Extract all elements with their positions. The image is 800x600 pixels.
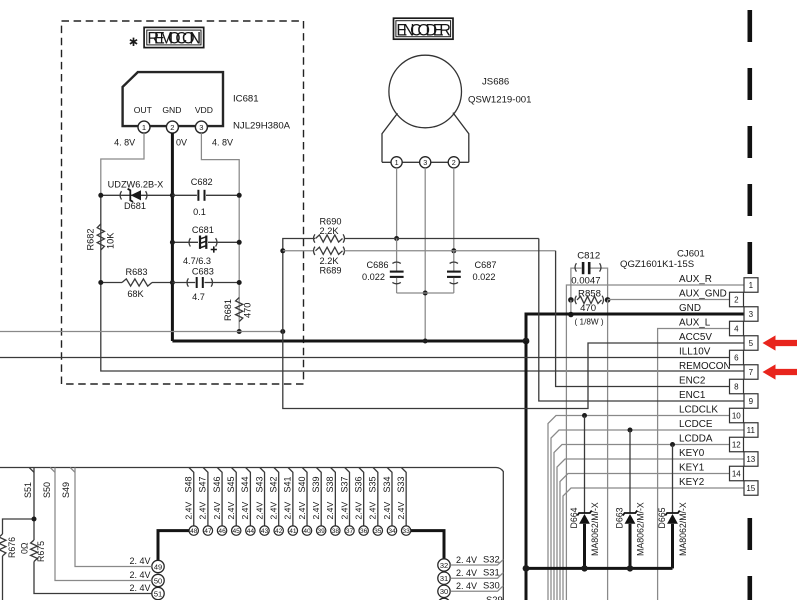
svg-text:ENC2: ENC2 [679, 376, 705, 387]
key pin 43 stub [260, 468, 265, 527]
label 2.4V pin 49 [129, 556, 150, 566]
svg-text:2.4V: 2.4V [339, 502, 349, 520]
svg-text:2.4V: 2.4V [396, 502, 406, 520]
svg-text:LCDCE: LCDCE [679, 419, 713, 430]
wire D663 up [629, 430, 631, 513]
svg-text:40: 40 [303, 528, 311, 535]
asterisk mark [130, 38, 137, 46]
encoder pin 1 [391, 157, 402, 168]
label 0.022 C686 [362, 272, 385, 282]
svg-text:4. 8V: 4. 8V [114, 138, 135, 148]
svg-text:ILL10V: ILL10V [679, 347, 711, 358]
wire S50 chamfer [50, 468, 55, 473]
label S47 [198, 476, 208, 492]
svg-text:REMOCON: REMOCON [147, 29, 200, 47]
label 2.4V pin 50 [129, 570, 150, 580]
svg-text:470: 470 [243, 303, 253, 318]
wire S30 [450, 586, 503, 592]
label 470 R858 [580, 303, 596, 314]
wire R683 row [101, 282, 173, 284]
key pin 46 stub [217, 468, 222, 527]
label 0ohm [20, 542, 30, 554]
svg-text:36: 36 [360, 528, 368, 535]
svg-text:1: 1 [749, 281, 754, 290]
junction D663 tap [628, 428, 633, 433]
label R858 [578, 288, 601, 299]
encoder pin 3 [420, 157, 431, 168]
label 2.4V pin 30 [456, 581, 477, 591]
label 4.7/6.3 [183, 256, 211, 266]
junction C681 right [237, 240, 242, 245]
label ENC1 [679, 390, 706, 401]
CJ601 pin 7 box [744, 365, 758, 380]
svg-text:D663: D663 [615, 507, 625, 528]
label AUX_GND [679, 289, 727, 300]
svg-text:S44: S44 [240, 476, 250, 492]
svg-text:49: 49 [154, 562, 162, 571]
key pin 50 circle [152, 574, 164, 586]
svg-text:R681: R681 [223, 299, 233, 321]
svg-text:GND: GND [679, 303, 701, 314]
capacitor C681 electrolytic [189, 236, 217, 253]
svg-text:41: 41 [289, 528, 297, 535]
label 0.0047 [571, 276, 600, 287]
svg-text:R682: R682 [86, 229, 96, 251]
wire D665 down [671, 524, 674, 569]
resistor R681 [236, 298, 243, 322]
svg-text:45: 45 [233, 528, 241, 535]
wire S49 chamfer [70, 468, 75, 473]
svg-text:2.4V: 2.4V [354, 502, 364, 520]
svg-text:QGZ1601K1-15S: QGZ1601K1-15S [620, 259, 694, 270]
label C681 [192, 225, 214, 235]
svg-text:68K: 68K [127, 289, 144, 299]
wire R676 link [3, 519, 35, 534]
junction C681 gnd rail [170, 240, 175, 245]
junction D664 tap [582, 413, 587, 418]
label LCDCE [679, 419, 713, 430]
svg-text:2.4V: 2.4V [254, 502, 264, 520]
svg-text:ENCODER: ENCODER [396, 22, 450, 40]
label S35 [368, 476, 378, 492]
wire D664 up [584, 416, 586, 514]
key pin 37 circle [345, 526, 354, 535]
svg-text:R683: R683 [126, 267, 148, 277]
junction R858 left [568, 297, 574, 303]
CJ601 pin 14 box [730, 466, 744, 481]
svg-text:C812: C812 [577, 250, 600, 261]
label 2.4V pin 38 [325, 502, 335, 520]
label LCDDA [679, 434, 713, 445]
CJ601 pin 6 box [730, 350, 744, 365]
rotary encoder JS686 knob [389, 55, 462, 128]
IC681 pin 1 [138, 121, 150, 133]
key pin 47 circle [203, 526, 212, 535]
svg-text:35: 35 [374, 528, 382, 535]
wire IC681 pin1 to left rail [101, 133, 144, 195]
wire C682 row [172, 194, 239, 196]
svg-text:S33: S33 [396, 476, 406, 492]
key pin 35 circle [373, 526, 382, 535]
label 68K [127, 289, 144, 299]
svg-text:S51: S51 [23, 482, 33, 498]
label C682 [191, 177, 213, 187]
label AUX_R [679, 274, 712, 285]
label S34 [382, 476, 392, 492]
svg-text:MA8062/M/-X: MA8062/M/-X [636, 502, 646, 556]
wire GND to pin3 [526, 314, 744, 341]
svg-text:S42: S42 [269, 476, 279, 492]
key pin 49 circle [152, 560, 164, 572]
svg-text:REMOCON: REMOCON [679, 361, 731, 372]
wire R858 to gnd [570, 300, 572, 315]
wire diode common [526, 567, 673, 570]
key pin 36 circle [359, 526, 368, 535]
wire S51 [34, 468, 152, 594]
svg-text:( 1/8W ): ( 1/8W ) [575, 317, 604, 326]
label 2.4V pin 31 [456, 568, 477, 578]
svg-text:R858: R858 [578, 288, 601, 299]
svg-text:47: 47 [204, 528, 212, 535]
label S32 [483, 553, 500, 564]
junction C682 right [237, 193, 242, 198]
label NJL29H380A [233, 121, 291, 132]
svg-text:C683: C683 [192, 266, 214, 276]
label S44 [240, 476, 250, 492]
key pin 33 circle [401, 526, 410, 535]
junction enc3 caps [423, 291, 428, 296]
wire S49 [75, 468, 152, 567]
wire key bus line [0, 468, 503, 600]
svg-text:4: 4 [734, 325, 739, 334]
wire cap bottoms link [397, 292, 454, 294]
svg-text:R676: R676 [7, 537, 17, 558]
diode D664 [577, 511, 591, 524]
svg-text:C687: C687 [475, 260, 497, 270]
label KEY1 [679, 463, 705, 474]
wire acc5v rail up [283, 239, 315, 332]
label 2.4V pin 32 [456, 555, 477, 565]
capacitor C682 [198, 190, 204, 201]
svg-text:D681: D681 [124, 201, 146, 211]
label 2.4V pin 35 [368, 502, 378, 520]
key pin 46 circle [217, 526, 226, 535]
junction D681 gnd rail [170, 193, 175, 198]
junction node left [280, 329, 285, 334]
svg-text:33: 33 [402, 528, 410, 535]
encoder body [382, 113, 469, 163]
label 4.8V pin1 [114, 138, 135, 148]
wire ENC2 [556, 251, 730, 387]
svg-text:C686: C686 [367, 260, 389, 270]
zener diode D681 [120, 189, 147, 202]
capacitor C686 [390, 239, 404, 294]
wire AUX_R [566, 285, 744, 600]
svg-text:2. 4V: 2. 4V [129, 583, 150, 593]
key pin 35 stub [373, 468, 378, 527]
label 2.2K R690 [320, 226, 340, 236]
label C683 [192, 266, 214, 276]
svg-text:50: 50 [154, 576, 162, 585]
wire pins 33-32 link [411, 531, 444, 559]
junction R681 bottom [237, 329, 242, 334]
wire LCDDA [554, 445, 730, 600]
label LCDCLK [679, 405, 718, 416]
page boundary dashed line [747, 10, 752, 600]
label ENC2 [679, 376, 705, 387]
junction C683 right [237, 280, 242, 285]
wire ENC1 [539, 239, 744, 402]
svg-text:48: 48 [190, 528, 198, 535]
label 0V pin2 [176, 138, 187, 148]
key pin 37 stub [345, 468, 350, 527]
svg-text:14: 14 [732, 470, 741, 479]
wire right rail [238, 195, 240, 331]
key pin 40 circle [302, 526, 311, 535]
svg-text:VDD: VDD [195, 105, 213, 115]
junction D664 common [581, 565, 587, 571]
junction D681 left [98, 193, 103, 198]
svg-text:KEY2: KEY2 [679, 477, 704, 488]
svg-text:C682: C682 [191, 177, 213, 187]
ENCODER title box [394, 18, 454, 39]
svg-text:2.4V: 2.4V [198, 502, 208, 520]
label S30 [483, 580, 500, 591]
key pin 29 circle partial [438, 594, 503, 600]
svg-text:LCDDA: LCDDA [679, 434, 713, 445]
wire R689 to enc2 [345, 250, 556, 252]
svg-text:2.4V: 2.4V [382, 502, 392, 520]
svg-text:30: 30 [440, 587, 448, 596]
resistor R858 [575, 296, 604, 304]
wire encoder pin1 drop [396, 168, 398, 239]
svg-text:S40: S40 [297, 476, 307, 492]
svg-text:31: 31 [440, 574, 448, 583]
svg-text:S43: S43 [254, 476, 264, 492]
wire C812 stubs [571, 268, 608, 300]
svg-text:51: 51 [154, 589, 162, 598]
label 470 [243, 303, 253, 318]
label AUX_L [679, 318, 711, 329]
label 10K [106, 232, 116, 249]
label QSW1219-001 [468, 95, 531, 106]
svg-text:2.4V: 2.4V [269, 502, 279, 520]
CJ601 pin 1 box [744, 278, 758, 293]
wire C683 row [172, 282, 239, 284]
resistor R676 [0, 534, 6, 556]
IC681 pin 3 [195, 121, 207, 133]
key pin 48 stub [189, 468, 194, 527]
label 4.8V pin3 [212, 138, 233, 148]
label S45 [226, 476, 236, 492]
wire left rail (node A) [100, 195, 102, 282]
svg-text:2.2K: 2.2K [320, 256, 340, 266]
diode D663 [623, 511, 637, 524]
key pin 40 stub [302, 468, 307, 527]
REMOCON shield dashed box [62, 21, 304, 384]
CJ601 pin 15 box [744, 481, 758, 496]
label KEY0 [679, 448, 705, 459]
wire pins 48-49 link [158, 531, 189, 561]
svg-text:D664: D664 [569, 507, 579, 528]
label R675 [36, 541, 46, 562]
label 2.4V pin 40 [297, 502, 307, 520]
wire ILL10V [0, 357, 730, 359]
svg-text:IC681: IC681 [233, 94, 259, 105]
svg-text:S46: S46 [212, 476, 222, 492]
wire LCDCE [551, 430, 744, 600]
svg-text:13: 13 [746, 455, 755, 464]
label R682 [86, 229, 96, 251]
wire GND down [525, 341, 528, 600]
junction enc1 node [394, 236, 399, 241]
CJ601 pin 4 box [730, 321, 744, 336]
svg-text:S35: S35 [368, 476, 378, 492]
label 2.4V pin 45 [226, 502, 236, 520]
label S40 [297, 476, 307, 492]
wire D665 up [672, 445, 674, 514]
wire D681 row [101, 194, 173, 196]
CJ601 pin 13 box [744, 452, 758, 467]
wire D664 down [583, 524, 586, 569]
label JS686 [482, 77, 509, 88]
label C687 [475, 260, 497, 270]
svg-text:S30: S30 [483, 580, 500, 591]
wire AUX_GND [608, 300, 730, 600]
label R681 [223, 299, 233, 321]
CJ601 pin 5 box [744, 336, 758, 351]
svg-text:8: 8 [734, 383, 739, 392]
label IC681 [233, 94, 259, 105]
label R683 [126, 267, 148, 277]
svg-text:S38: S38 [325, 476, 335, 492]
svg-text:0V: 0V [176, 138, 187, 148]
label D665 [657, 507, 667, 528]
red arrow pin 7 [763, 364, 798, 379]
CJ601 pin 8 box [730, 379, 744, 394]
svg-text:R690: R690 [320, 216, 342, 226]
key pin 43 circle [260, 526, 269, 535]
wire encoder pin2 drop [453, 168, 455, 251]
label KEY2 [679, 477, 704, 488]
svg-text:S49: S49 [61, 482, 71, 498]
svg-text:S50: S50 [42, 482, 52, 498]
svg-text:42: 42 [275, 528, 283, 535]
junction R858 right [605, 297, 611, 303]
label REMOCON [679, 361, 731, 372]
svg-text:KEY1: KEY1 [679, 463, 705, 474]
svg-text:2.4V: 2.4V [240, 502, 250, 520]
label D681 [124, 201, 146, 211]
CJ601 pin 11 box [744, 423, 758, 438]
op-amp IC681 body [123, 72, 223, 126]
svg-text:2.4V: 2.4V [311, 502, 321, 520]
svg-text:C681: C681 [192, 225, 214, 235]
label 2.4V pin 39 [311, 502, 321, 520]
svg-text:38: 38 [332, 528, 340, 535]
label S36 [354, 476, 364, 492]
junction acc rail r689 [280, 248, 285, 253]
CJ601 pin 2 box [730, 292, 744, 307]
wire IC681 pin3 to right rail [201, 133, 239, 195]
wire S32 [450, 559, 503, 565]
wire GND rail (IC681 pin2) [171, 133, 174, 341]
wire ACC5V [283, 332, 744, 409]
label 2.2K R689 [320, 256, 340, 266]
label D663 [615, 507, 625, 528]
svg-text:9: 9 [749, 397, 754, 406]
svg-text:S48: S48 [184, 476, 194, 492]
key pin 32 circle [438, 559, 450, 571]
capacitor C687 [447, 251, 461, 293]
wire S51 chamfer [29, 468, 34, 473]
label S51 [23, 482, 33, 498]
key pin 45 circle [232, 526, 241, 535]
label 1/8W [575, 317, 604, 326]
svg-text:0.022: 0.022 [362, 272, 385, 282]
svg-text:LCDCLK: LCDCLK [679, 405, 718, 416]
label 2.4V pin 43 [254, 502, 264, 520]
label 2.4V pin 47 [198, 502, 208, 520]
wire R676 down [2, 556, 4, 600]
svg-text:S45: S45 [226, 476, 236, 492]
label 2.4V pin 33 [396, 502, 406, 520]
resistor R690 [314, 234, 345, 242]
svg-text:32: 32 [440, 561, 448, 570]
key pin 45 stub [231, 468, 236, 527]
key pin 44 circle [246, 526, 255, 535]
key pin 33 stub [401, 468, 406, 527]
resistor R675 [31, 540, 38, 562]
key pin 42 stub [274, 468, 279, 527]
svg-text:MA8062/M/-X: MA8062/M/-X [590, 502, 600, 556]
svg-text:1: 1 [142, 123, 146, 132]
key pin 47 stub [203, 468, 208, 527]
svg-text:S31: S31 [483, 567, 500, 578]
svg-text:2. 4V: 2. 4V [129, 556, 150, 566]
wire remocon node to left edge [0, 331, 283, 333]
label MA8062/M/-X D663 [636, 502, 646, 556]
REMOCON title box [144, 27, 204, 47]
wire C681 row [172, 241, 239, 243]
svg-text:ENC1: ENC1 [679, 390, 706, 401]
label R690 [320, 216, 342, 226]
svg-text:2. 4V: 2. 4V [456, 568, 477, 578]
wire LCDCLK [548, 416, 730, 600]
wire R690 to enc1 [345, 238, 539, 240]
key pin 34 stub [387, 468, 392, 527]
wire GND thick run [172, 340, 526, 343]
svg-text:2. 4V: 2. 4V [129, 570, 150, 580]
CJ601 pin 3 box [744, 307, 758, 322]
label 2.4V pin 51 [129, 583, 150, 593]
label S33 [396, 476, 406, 492]
resistor R683 [122, 279, 152, 286]
svg-text:JS686: JS686 [482, 77, 509, 88]
label S31 [483, 567, 500, 578]
svg-text:2: 2 [734, 296, 739, 305]
svg-text:AUX_L: AUX_L [679, 318, 711, 329]
svg-text:S37: S37 [339, 476, 349, 492]
junction R676 tap [32, 517, 37, 522]
label GND [679, 303, 701, 314]
label C686 [367, 260, 389, 270]
label C812 [577, 250, 600, 261]
label S43 [254, 476, 264, 492]
svg-text:15: 15 [746, 484, 755, 493]
wire KEY0 [557, 459, 744, 600]
capacitor C812 [575, 262, 601, 274]
